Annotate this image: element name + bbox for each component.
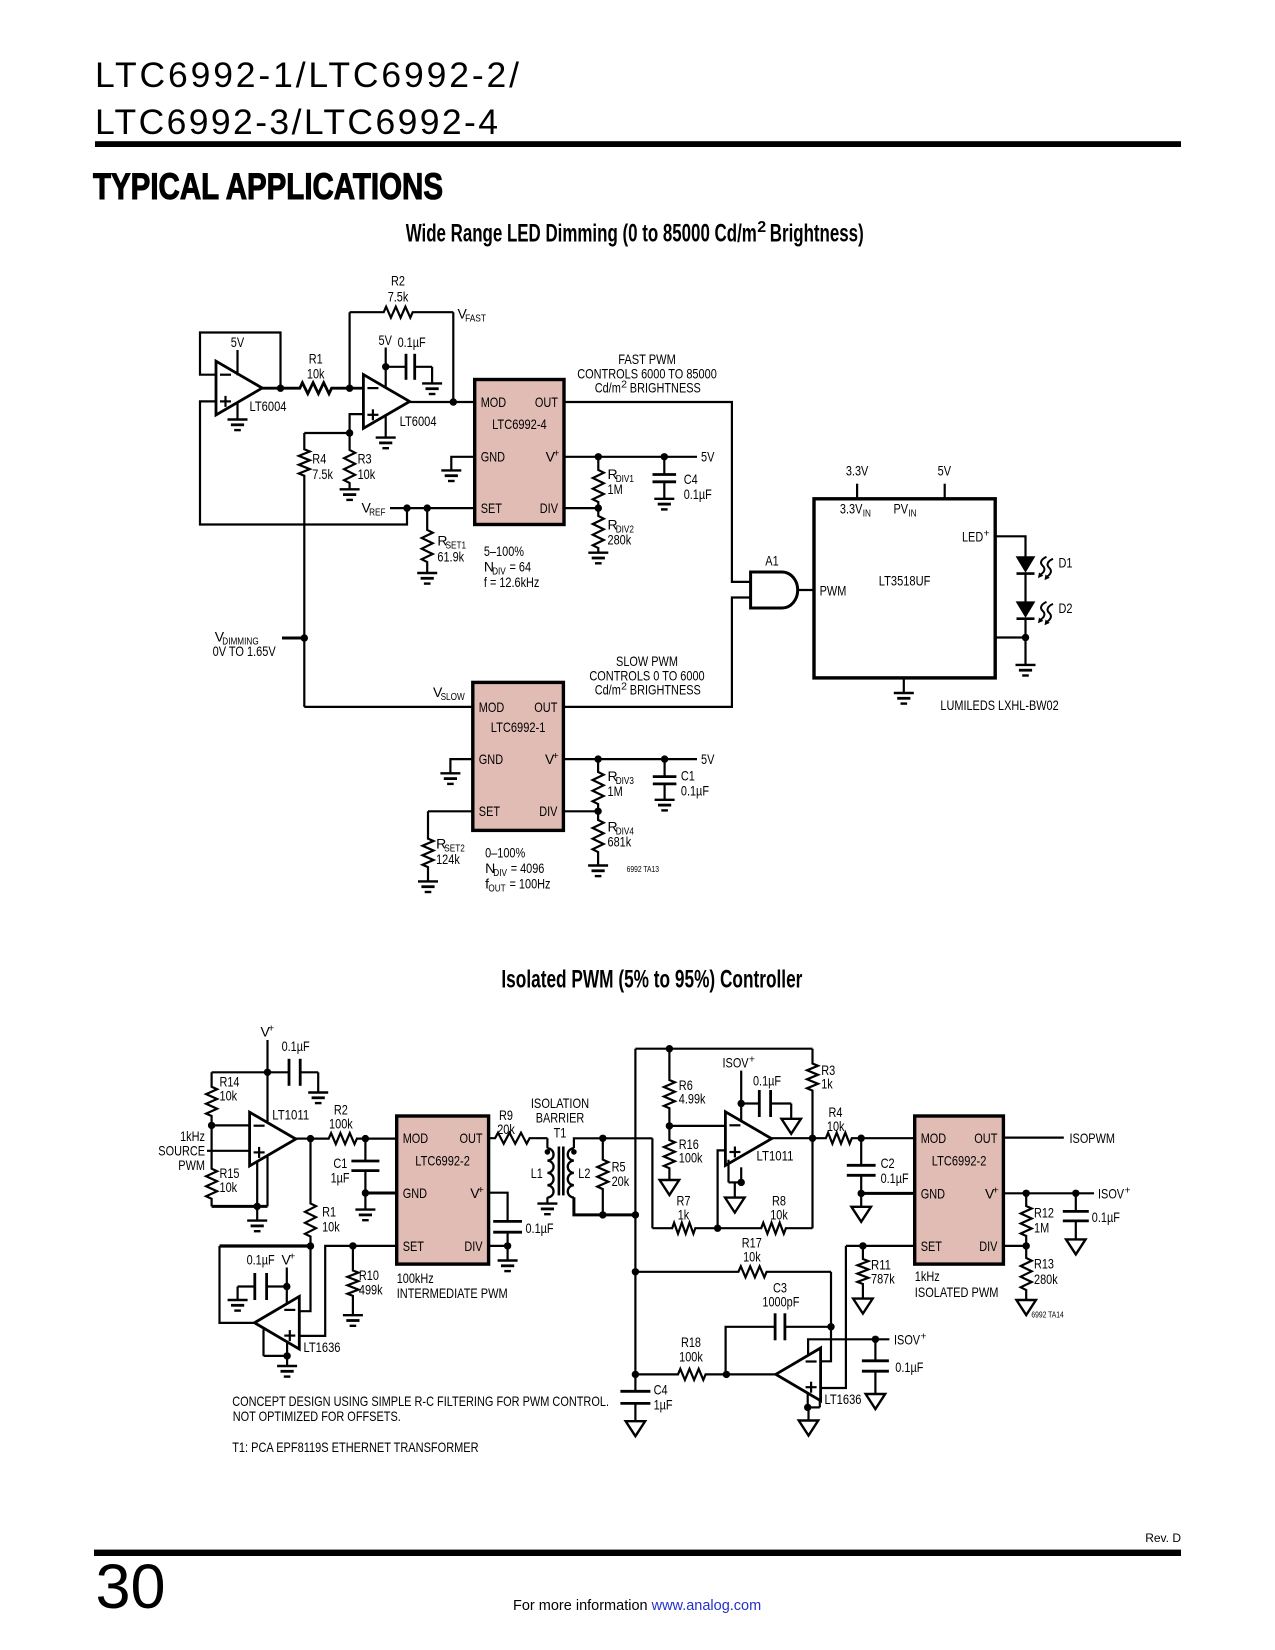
svg-text:T1: PCA EPF8119S ETHERNET TRAN: T1: PCA EPF8119S ETHERNET TRANSFORMER [232,1439,478,1455]
svg-text:LT1636: LT1636 [304,1339,341,1355]
svg-text:www.analog.com: www.analog.com [651,1598,762,1614]
svg-text:R3: R3 [358,451,372,467]
wire supply top rail [212,1071,289,1073]
wire ISOV+ rail U11 [808,1339,889,1355]
svg-text:LT6004: LT6004 [250,398,287,414]
node U10 DIV [1022,1242,1029,1249]
wire ISOPWM out [1003,1136,1063,1138]
svg-text:1µF: 1µF [331,1170,350,1186]
resistor R4 [299,433,310,707]
svg-text:ISOV: ISOV [1098,1186,1125,1202]
svg-text:Wide Range LED Dimming (0 to 8: Wide Range LED Dimming (0 to 85000 Cd/m [406,220,757,248]
node VDIMMING [301,634,308,641]
svg-text:+: + [1124,1185,1130,1197]
node U9 output [772,1137,813,1139]
svg-text:ISOV: ISOV [723,1055,750,1071]
capacitor C4 (fig2) [620,1390,650,1393]
svg-text:MOD: MOD [403,1130,429,1146]
svg-text:R4: R4 [312,451,326,467]
svg-text:100k: 100k [679,1349,703,1365]
ground C4 [626,1421,646,1436]
svg-text:+: + [289,1251,295,1263]
svg-text:280k: 280k [1034,1271,1058,1287]
ground U8 bypass [237,1287,239,1301]
svg-text:LTC6992-1: LTC6992-1 [491,719,546,735]
ground U3 GND pin [451,457,474,471]
svg-text:100k: 100k [679,1150,703,1166]
svg-text:R12: R12 [1034,1205,1054,1221]
ground U6 [256,1206,258,1220]
svg-text:BARRIER: BARRIER [536,1110,585,1126]
svg-text:IN: IN [908,508,916,520]
wire U8 V- pins [262,1330,264,1356]
svg-text:1k: 1k [678,1207,690,1223]
svg-text:0V TO 1.65V: 0V TO 1.65V [213,643,277,659]
svg-text:61.9k: 61.9k [437,549,464,565]
resistor RSET2 [428,810,473,812]
svg-text:5V: 5V [379,332,393,348]
svg-text:OUT: OUT [974,1130,997,1146]
svg-text:30: 30 [96,1552,166,1622]
wire ISOV+ top rail [635,1048,812,1050]
ground LED string [1016,664,1036,666]
transformer T1 core [558,1147,561,1196]
svg-text:2: 2 [621,379,627,391]
ground bypass U6 [317,1072,319,1092]
svg-text:0.1µF: 0.1µF [526,1220,554,1236]
ground R16 [660,1180,680,1195]
svg-text:+: + [993,1184,999,1196]
node C2 [858,1135,865,1142]
transformer T1 secondary L2 [568,1148,574,1197]
svg-text:+: + [553,750,559,762]
svg-text:681k: 681k [608,834,632,850]
resistor R10 [347,1246,358,1315]
ground R13 [1016,1300,1035,1315]
wire U8 feedback loop [220,1244,311,1247]
wire L2 bottom [574,1197,636,1215]
svg-text:LT3518UF: LT3518UF [879,573,931,589]
svg-text:LUMILEDS LXHL-BW02: LUMILEDS LXHL-BW02 [940,697,1058,713]
svg-text:OUT: OUT [488,883,506,895]
svg-text:124k: 124k [436,851,460,867]
svg-text:LT1011: LT1011 [272,1107,309,1123]
svg-text:DIV: DIV [540,500,559,516]
svg-text:10k: 10k [220,1179,238,1195]
node U9 plus input [714,1225,721,1232]
svg-text:0.1µF: 0.1µF [881,1170,909,1186]
svg-text:6992 TA14: 6992 TA14 [1031,1310,1064,1320]
svg-text:3.3V: 3.3V [840,500,863,516]
svg-text:L1: L1 [531,1165,543,1181]
svg-text:= 100Hz: = 100Hz [510,876,551,892]
wire R17 down to C3 node [830,1272,832,1327]
svg-text:1M: 1M [1034,1220,1049,1236]
svg-text:LTC6992-2: LTC6992-2 [415,1153,470,1169]
node DIV [595,504,602,511]
wire U1 feedback loop [200,333,281,389]
capacitor C2 [860,1138,862,1165]
wire U7 V+ bypass [489,1193,508,1222]
svg-text:+: + [984,528,990,540]
svg-text:6992 TA13: 6992 TA13 [627,864,660,874]
ground R10 [343,1314,363,1316]
svg-text:LT1011: LT1011 [757,1148,794,1164]
svg-text:R2: R2 [391,272,405,288]
capacitor ISOV+ bypass right [1075,1193,1077,1211]
svg-text:5V: 5V [938,463,952,479]
svg-text:For more information: For more information [513,1598,648,1614]
svg-text:Cd/m: Cd/m [595,380,621,396]
svg-text:GND: GND [403,1185,427,1201]
ground R3 [340,488,360,490]
resistor R8 [718,1223,813,1234]
wire U7 SET row [299,1246,396,1336]
svg-text:OUT: OUT [534,699,557,715]
svg-text:A1: A1 [765,553,779,569]
resistor R2 feedback [349,312,351,388]
svg-text:LTC6992-2: LTC6992-2 [932,1153,987,1169]
op-amp U9 LT1011 [725,1112,771,1166]
node U7 DIV [489,1245,508,1247]
svg-text:NOT OPTIMIZED FOR OFFSETS.: NOT OPTIMIZED FOR OFFSETS. [233,1408,401,1424]
svg-text:10k: 10k [743,1249,761,1265]
resistor R3 [344,433,355,489]
node R1 / U2 minus input [346,385,353,392]
wire U6 negative rail [212,1205,268,1208]
resistor RDIV2 [593,508,604,553]
node R6/R16 [666,1122,673,1129]
capacitor C4 [663,457,665,475]
op-amp U2 LT6004 [363,375,409,429]
capacitor C1 (fig2) [364,1139,366,1161]
footer rule [94,1550,1181,1556]
node MOD net [362,1135,369,1142]
svg-text:5–100%: 5–100% [484,543,524,559]
svg-text:SET: SET [921,1238,943,1254]
svg-text:SLOW: SLOW [441,691,465,703]
svg-text:R13: R13 [1034,1256,1054,1272]
svg-text:MOD: MOD [481,394,507,410]
svg-text:10k: 10k [358,466,376,482]
svg-text:MOD: MOD [921,1130,947,1146]
svg-text:SET: SET [481,500,503,516]
wire R8 to output node [811,1138,813,1228]
wire U9 plus input [718,1150,726,1228]
resistor RDIV3 [593,759,604,811]
op-amp U6 LT1011 [250,1112,296,1166]
ground U2 bypass [431,367,433,384]
ground ISOV+ bypass [1066,1239,1086,1254]
svg-text:C1: C1 [681,767,695,783]
svg-text:= 4096: = 4096 [511,860,545,876]
svg-text:0.1µF: 0.1µF [1092,1209,1120,1225]
diode D1 LED [1017,557,1035,572]
IC U7 LTC6992-2 [397,1116,489,1264]
wire SET to U11 plus input [821,1246,846,1388]
svg-text:1µF: 1µF [654,1397,673,1413]
node R14/R15 divider [208,1122,215,1129]
resistor R6 [664,1049,675,1126]
svg-text:280k: 280k [608,532,632,548]
ground U9 bypass [790,1104,792,1119]
wire D1-D2 [1024,574,1026,602]
svg-text:Cd/m: Cd/m [595,682,621,698]
resistor R15 [206,1125,217,1206]
header rule [95,141,1181,147]
svg-text:DIV: DIV [493,867,507,879]
svg-text:+: + [920,1331,926,1343]
svg-text:L2: L2 [578,1165,590,1181]
svg-text:10k: 10k [827,1118,845,1134]
ground U11 [807,1407,809,1420]
svg-text:SET: SET [403,1238,425,1254]
svg-text:5V: 5V [701,751,715,767]
resistor R1 (fig2) [305,1139,316,1246]
svg-text:2: 2 [757,219,766,236]
resistor RDIV4 [593,811,604,865]
svg-text:1kHz: 1kHz [915,1268,940,1284]
svg-text:REF: REF [369,507,385,519]
wire VREF / SET row [390,507,475,509]
5V input stub [944,484,946,499]
wire U6 V- pin [256,1161,258,1206]
svg-text:D1: D1 [1059,554,1073,570]
IC U10 LTC6992-2 [915,1116,1004,1264]
svg-text:PWM: PWM [178,1157,205,1173]
svg-text:10k: 10k [322,1219,340,1235]
wire ISOV+ trunk vertical [634,1049,636,1392]
ground R11 [853,1299,873,1314]
wire fast OUT to AND gate [564,402,751,582]
ground RSET2 [418,880,438,882]
svg-text:MOD: MOD [479,699,505,715]
svg-text:0–100%: 0–100% [485,845,525,861]
node R3/R4 divider [346,429,353,436]
svg-text:0.1µF: 0.1µF [895,1359,923,1375]
svg-text:LTC6992-4: LTC6992-4 [492,416,547,432]
svg-text:C2: C2 [881,1155,895,1171]
svg-text:f = 12.6kHz: f = 12.6kHz [484,574,540,590]
svg-text:1M: 1M [608,481,623,497]
ground L1 [546,1197,548,1203]
svg-text:LT6004: LT6004 [400,413,437,429]
svg-text:+: + [553,448,559,460]
svg-text:787k: 787k [871,1271,895,1287]
svg-text:OUT: OUT [460,1130,483,1146]
node DIV U4 [594,808,601,815]
svg-text:OUT: OUT [535,394,558,410]
node U2 output / VFAST [450,398,457,405]
node U2 supply bypass [382,363,389,370]
resistor R4 (fig2) [813,1133,862,1144]
wire U8 minus input [299,1246,310,1311]
svg-text:DIV: DIV [979,1238,998,1254]
svg-text:ISOV: ISOV [894,1332,921,1348]
ground C1/GND [364,1193,366,1210]
svg-text:7.5k: 7.5k [312,466,333,482]
resistor R7 [652,1223,717,1234]
svg-text:Brightness): Brightness) [770,220,864,248]
ground U9 [734,1182,736,1197]
resistor R11 [857,1246,868,1299]
ground U5 [903,678,905,693]
svg-text:4.99k: 4.99k [679,1091,706,1107]
svg-text:GND: GND [921,1185,945,1201]
svg-text:FAST: FAST [465,313,486,325]
IC U3 LTC6992-4 [475,380,564,525]
ground RSET1 [417,572,437,574]
capacitor 0.1uF U7 bypass [493,1220,522,1223]
ground U2 [385,415,387,438]
AND gate A1 [751,572,798,608]
wire U2 plus input [304,414,363,433]
svg-text:0.1µF: 0.1µF [247,1252,275,1268]
svg-text:0.1µF: 0.1µF [684,486,712,502]
svg-text:D2: D2 [1059,600,1073,616]
wire U11 minus input [821,1327,831,1362]
svg-text:100kHz: 100kHz [397,1270,434,1286]
svg-text:2: 2 [621,681,627,693]
resistor R18 [635,1369,726,1380]
wire VFAST vertical [452,312,454,402]
wire R18 to U11 output [726,1373,776,1375]
wire U11 V- pins [807,1394,809,1408]
svg-text:ISOLATED PWM: ISOLATED PWM [915,1284,999,1300]
resistor R17 [635,1266,831,1277]
svg-text:PWM: PWM [820,582,847,598]
svg-text:0.1µF: 0.1µF [753,1073,781,1089]
wire U6 output [296,1137,311,1139]
capacitor 0.1uF U11 bypass [874,1339,876,1361]
svg-text:+: + [478,1184,484,1196]
wire slow OUT to AND gate [563,598,750,707]
svg-text:+: + [749,1054,755,1066]
svg-text:INTERMEDIATE PWM: INTERMEDIATE PWM [397,1285,508,1301]
wire U3 V+ to 5V [564,456,697,458]
ground RDIV2 [588,552,608,554]
resistor RSET1 [422,508,433,573]
svg-text:7.5k: 7.5k [388,288,409,304]
wire A1 output [798,589,814,591]
ground C1 [655,799,675,801]
svg-text:DIV: DIV [539,803,558,819]
node GND U10 [858,1190,865,1197]
op-amp U11 LT1636 [776,1348,821,1401]
wire L2 top to R7 rail [651,1138,653,1228]
wire D2 cathode to ground/box [1024,619,1026,665]
svg-text:1000pF: 1000pF [762,1294,799,1310]
svg-text:10k: 10k [307,366,325,382]
svg-text:LTC6992-1/LTC6992-2/: LTC6992-1/LTC6992-2/ [95,55,519,95]
node GND net U7 [362,1189,369,1196]
ground C2 [860,1193,862,1206]
wire U2 output to MOD [410,401,475,403]
resistor R5 [597,1138,608,1215]
resistor R2 (fig2) [311,1133,366,1144]
svg-text:C4: C4 [654,1382,668,1398]
svg-text:CONCEPT DESIGN USING SIMPLE R-: CONCEPT DESIGN USING SIMPLE R-C FILTERIN… [232,1393,609,1409]
ground U11 bypass [866,1394,886,1409]
wire U10 SET row [846,1245,915,1247]
svg-text:1M: 1M [608,783,623,799]
wire source to U6 plus input [207,1150,250,1152]
svg-text:C4: C4 [684,471,698,487]
wire L2 top [574,1138,653,1148]
svg-text:5V: 5V [701,448,715,464]
svg-text:1k: 1k [821,1076,833,1092]
svg-text:LTC6992-3/LTC6992-4: LTC6992-3/LTC6992-4 [95,102,498,142]
svg-text:10k: 10k [220,1088,238,1104]
resistor R14 [206,1072,217,1125]
svg-text:10k: 10k [770,1207,788,1223]
svg-text:LT1636: LT1636 [825,1391,862,1407]
svg-text:R18: R18 [681,1334,701,1350]
svg-text:R1: R1 [309,351,323,367]
resistor R3 (fig2) [807,1049,818,1139]
svg-text:LED: LED [962,529,983,545]
svg-text:0.1µF: 0.1µF [681,782,709,798]
diode D2 LED [1017,602,1035,617]
svg-text:Isolated PWM (5% to 95%) Contr: Isolated PWM (5% to 95%) Controller [501,966,802,994]
svg-text:TYPICAL APPLICATIONS: TYPICAL APPLICATIONS [93,165,443,207]
svg-text:IN: IN [863,508,871,520]
wire U6 V+ pin [266,1072,268,1122]
IC U5 LT3518UF [814,499,995,678]
resistor R12 [1021,1193,1032,1246]
ground C4 [654,498,674,500]
svg-text:BRIGHTNESS: BRIGHTNESS [630,682,701,698]
wire U9 V- pins [727,1160,729,1183]
wire U4 V+ to 5V [563,758,697,760]
svg-text:+: + [268,1023,274,1035]
svg-text:SET: SET [479,803,501,819]
svg-text:BRIGHTNESS: BRIGHTNESS [630,380,701,396]
svg-text:0.1µF: 0.1µF [282,1038,310,1054]
svg-text:R1: R1 [322,1204,336,1220]
wire U1 plus input to VREF rail [200,401,407,524]
capacitor C1 [663,759,665,777]
wire U1 output [262,387,281,390]
wire R4 bottom to MOD of U4 [304,706,473,708]
svg-text:3.3V: 3.3V [846,463,869,479]
wire U10 V+ row [1003,1192,1094,1194]
resistor R16 [664,1126,675,1180]
svg-text:100k: 100k [329,1116,353,1132]
ground RDIV4 [588,864,608,866]
svg-text:5V: 5V [231,334,245,350]
resistor RDIV1 [593,457,604,508]
svg-text:= 64: = 64 [510,559,532,575]
svg-text:499k: 499k [359,1282,383,1298]
transformer T1 primary L1 [546,1138,548,1148]
IC U4 LTC6992-1 [473,682,564,830]
resistor R13 [1021,1246,1032,1300]
svg-text:20k: 20k [612,1173,630,1189]
3.3V input stub [856,484,858,499]
op-amp U1 LT6004 (left) [216,361,262,415]
svg-text:PV: PV [894,500,909,516]
ground U8 [286,1356,288,1366]
ground U4 GND pin [450,759,472,773]
op-amp U8 LT1636 [255,1296,300,1349]
ground U7 DIV [507,1246,509,1261]
wire VDIMMING stub [282,637,304,640]
svg-text:T1: T1 [554,1125,567,1141]
svg-text:ISOPWM: ISOPWM [1070,1130,1116,1146]
wire V+ stub [266,1040,268,1072]
svg-text:GND: GND [481,449,505,465]
